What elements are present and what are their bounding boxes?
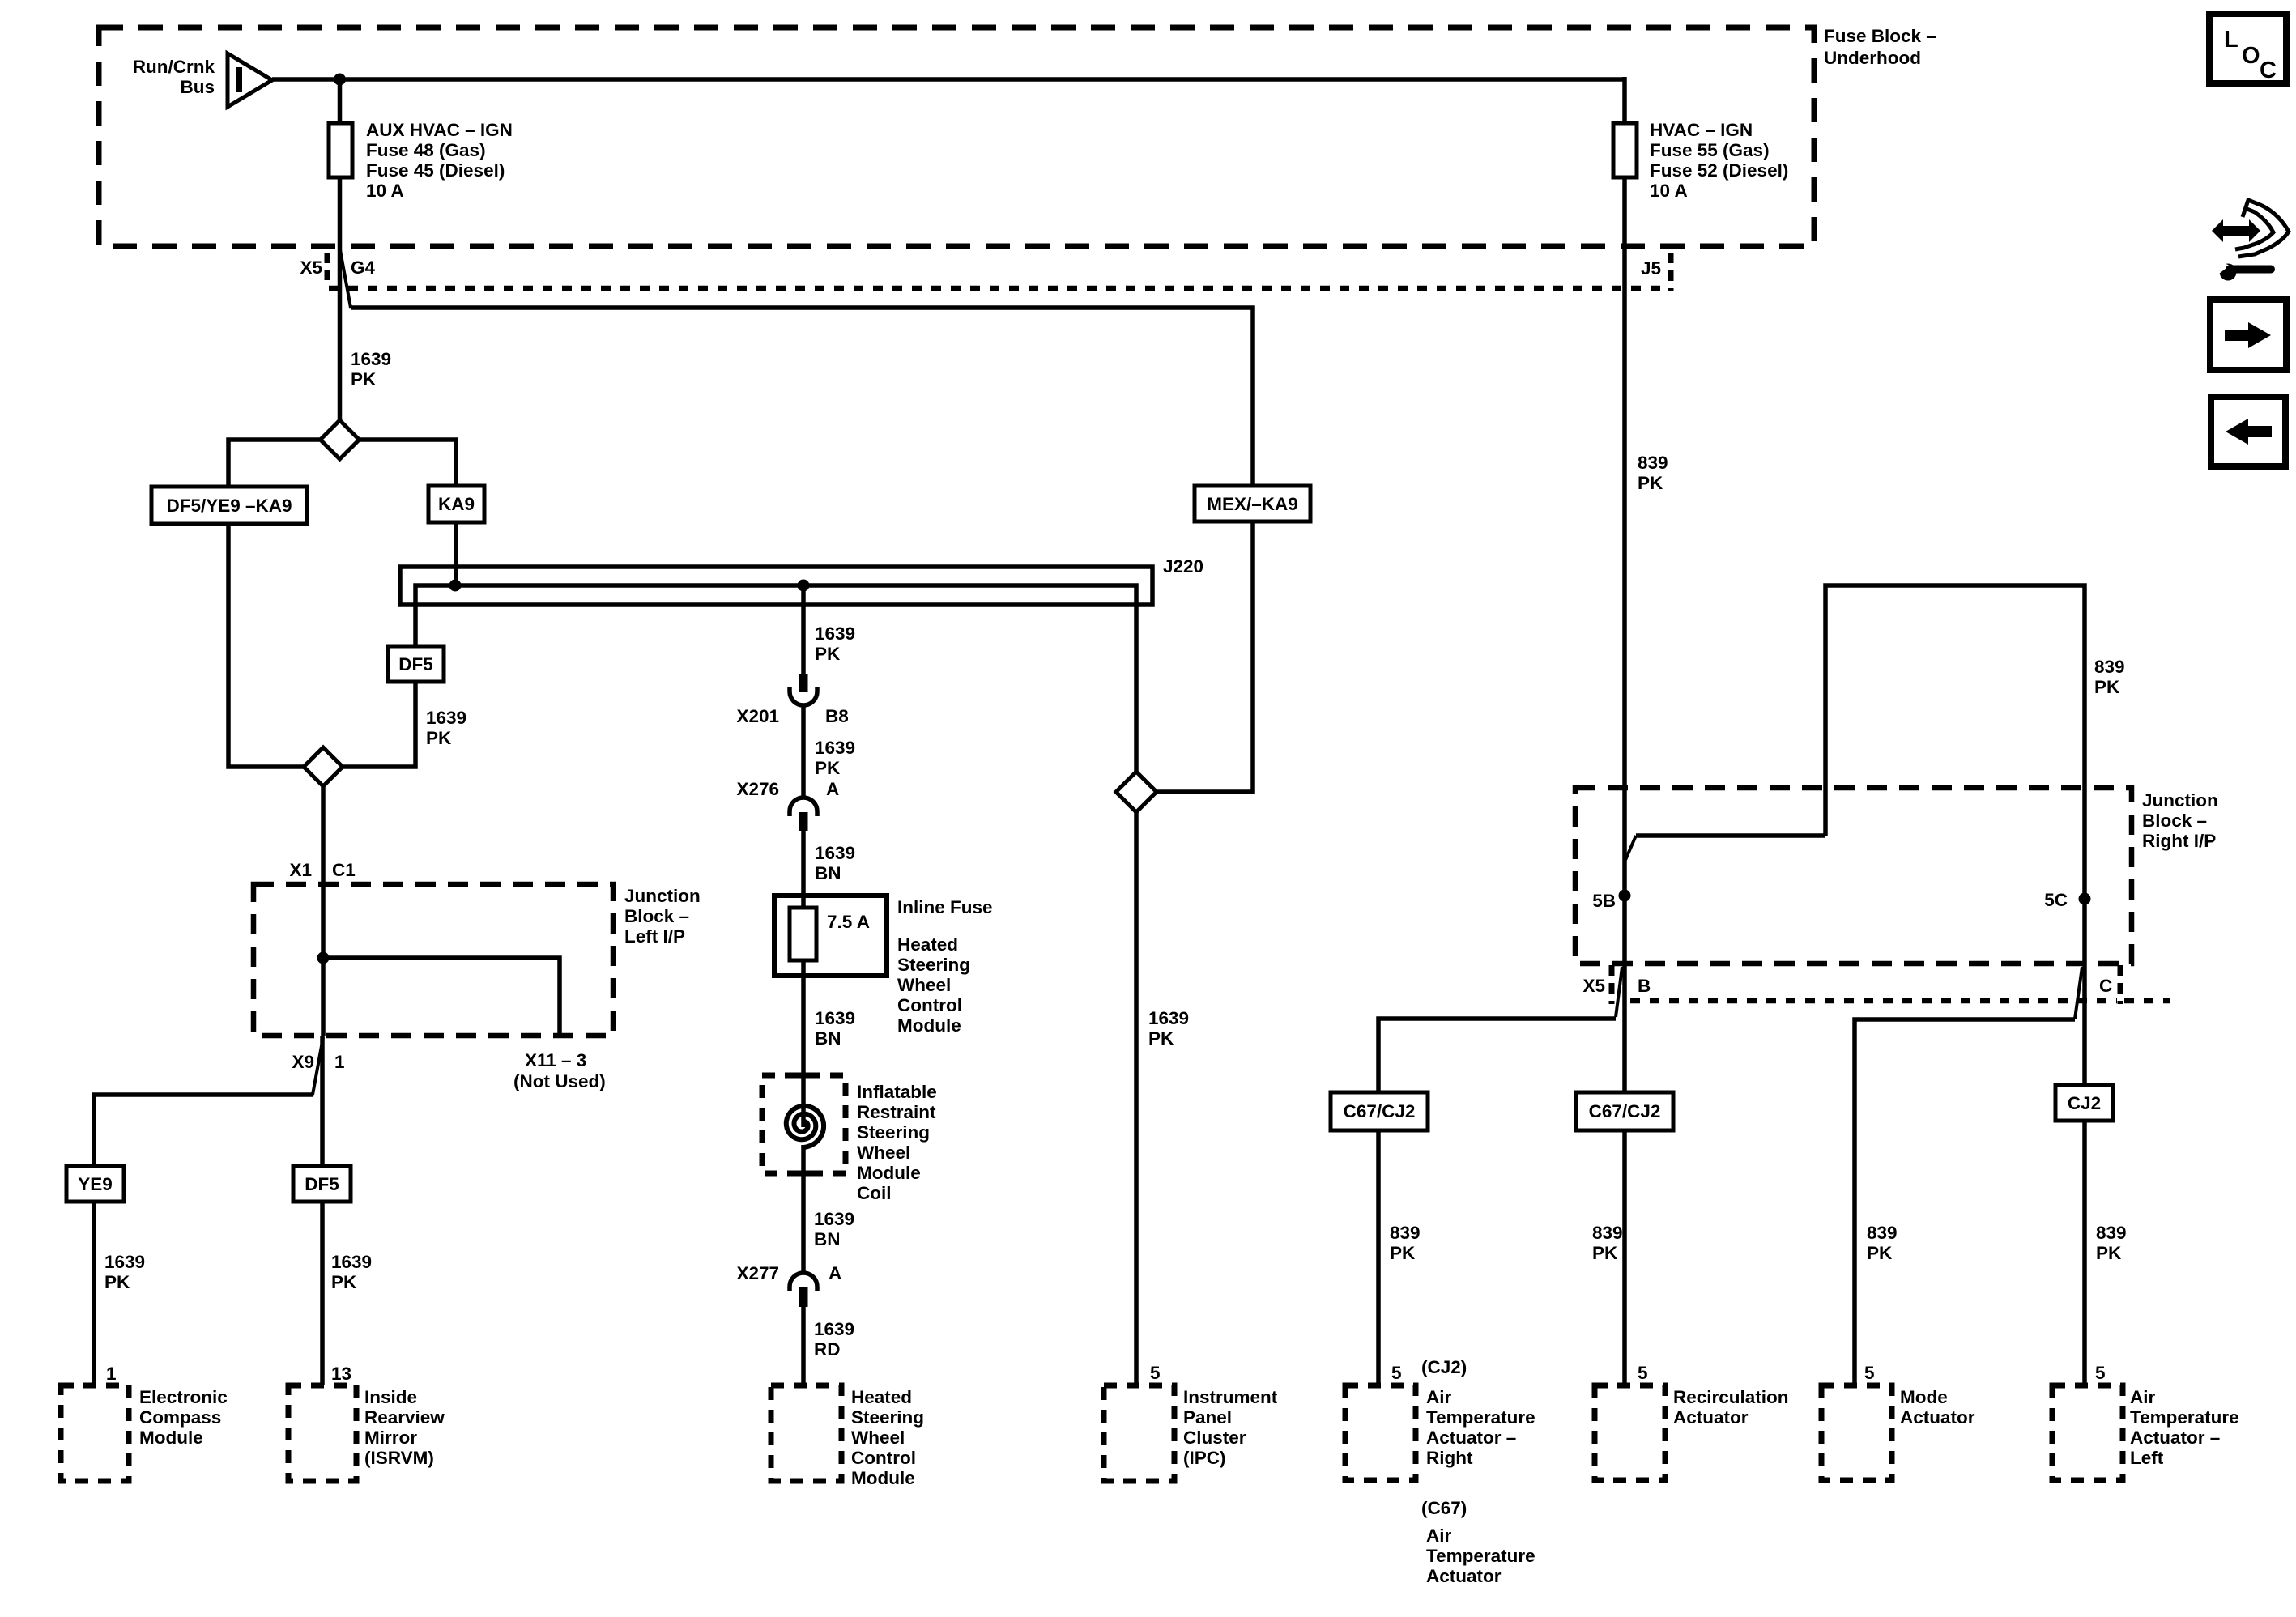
- heated steering wheel control module label: [851, 1387, 924, 1488]
- svg-text:PK: PK: [2096, 1243, 2122, 1263]
- wire label 1639 PK: [104, 1252, 145, 1292]
- wire: fuse 55 to J5: [1622, 177, 1627, 248]
- svg-text:L: L: [2224, 27, 2238, 53]
- svg-text:CJ2: CJ2: [2068, 1093, 2101, 1113]
- connector labels X277 / A: [736, 1263, 841, 1283]
- svg-text:HVAC – IGN: HVAC – IGN: [1650, 120, 1753, 140]
- svg-text:Fuse Block –: Fuse Block –: [1824, 26, 1936, 46]
- wire: Run/Crnk bus horizontal: [272, 77, 1625, 82]
- svg-text:O: O: [2242, 43, 2260, 69]
- mode actuator label: [1900, 1387, 1975, 1428]
- wire: right loop to air temp left branch: [1825, 585, 2085, 964]
- svg-text:(Not Used): (Not Used): [513, 1071, 606, 1091]
- wire: tap jog below B: [1616, 967, 1622, 1017]
- Run/Crnk Bus feed triangle: [228, 53, 272, 107]
- svg-text:Module: Module: [857, 1163, 921, 1183]
- electronic compass module box: [61, 1385, 129, 1481]
- connector labels X1 / C1: [289, 860, 355, 880]
- wire label 1639 PK: [331, 1252, 372, 1292]
- wire 1639 BN fuse to coil: [801, 960, 806, 1127]
- junction dot left I/P: [317, 952, 330, 964]
- svg-text:X277: X277: [736, 1263, 779, 1283]
- svg-text:Wheel: Wheel: [851, 1428, 905, 1448]
- connector labels X9 / 1: [292, 1052, 344, 1072]
- wire: B down to C67/CJ2 (recirculation): [1622, 964, 1627, 1092]
- svg-text:Temperature: Temperature: [2130, 1407, 2239, 1428]
- recirculation actuator label: [1673, 1387, 1789, 1428]
- svg-text:Left: Left: [2130, 1448, 2164, 1468]
- svg-text:1639: 1639: [351, 349, 391, 369]
- svg-text:1: 1: [106, 1364, 117, 1384]
- svg-text:839: 839: [1592, 1223, 1623, 1243]
- svg-text:Coil: Coil: [857, 1183, 892, 1203]
- svg-text:C1: C1: [332, 860, 356, 880]
- svg-text:Mirror: Mirror: [364, 1428, 417, 1448]
- svg-text:5C: 5C: [2044, 890, 2068, 910]
- inline fuse holder box: [774, 896, 887, 976]
- harness box MEX/-KA9: [1195, 486, 1310, 521]
- wire: horizontal to YE9: [94, 1095, 313, 1166]
- svg-text:Actuator –: Actuator –: [2130, 1428, 2220, 1448]
- fuse block - underhood label: [1824, 26, 1936, 68]
- wire inside junction block left: [321, 884, 326, 1036]
- svg-text:Control: Control: [897, 995, 962, 1015]
- wire label 839 PK: [1390, 1223, 1421, 1263]
- wire: KA9 down into J220: [454, 522, 458, 585]
- wire: horizontal to MEX/-KA9: [351, 308, 1253, 486]
- svg-text:Instrument: Instrument: [1183, 1387, 1278, 1407]
- svg-text:Restraint: Restraint: [857, 1102, 936, 1122]
- wire 839 PK to air temp left: [2082, 1121, 2087, 1385]
- connector labels X276 / A: [736, 779, 839, 799]
- svg-text:1639: 1639: [331, 1252, 372, 1272]
- fuse 55/52 HVAC-IGN 10A: [1613, 123, 1637, 177]
- wire: diamond to KA9: [360, 440, 457, 486]
- connector row dotted line (right): [1630, 998, 2117, 1004]
- junction block - right I/P dashed enclosure: [1575, 788, 2132, 964]
- junction dot J220 at X201 branch: [798, 580, 810, 592]
- svg-text:DF5/YE9 –KA9: DF5/YE9 –KA9: [166, 496, 292, 516]
- harness box DF5 (lower): [293, 1166, 351, 1202]
- svg-text:DF5: DF5: [398, 654, 433, 674]
- svg-text:Rearview: Rearview: [364, 1407, 445, 1428]
- inline fuse element 7.5 A: [790, 908, 816, 960]
- svg-text:Steering: Steering: [857, 1122, 930, 1143]
- junction block - right I/P label: [2142, 790, 2218, 851]
- wire: MEX/-KA9 down to diamond: [1157, 521, 1253, 792]
- svg-text:PK: PK: [104, 1272, 130, 1292]
- LOC reference box: [2209, 14, 2286, 83]
- instrument panel cluster box: [1104, 1385, 1174, 1481]
- svg-text:Heated: Heated: [897, 934, 958, 955]
- svg-text:PK: PK: [1867, 1243, 1893, 1263]
- svg-text:X11 – 3: X11 – 3: [525, 1050, 586, 1070]
- svg-text:Panel: Panel: [1183, 1407, 1232, 1428]
- svg-text:Air: Air: [2130, 1387, 2156, 1407]
- svg-text:5: 5: [1150, 1363, 1161, 1383]
- stub to X11-3 (not used): [323, 958, 560, 1036]
- svg-text:J220: J220: [1163, 556, 1203, 577]
- svg-text:5: 5: [1864, 1363, 1875, 1383]
- svg-text:Wheel: Wheel: [897, 975, 951, 995]
- svg-text:PK: PK: [331, 1272, 357, 1292]
- connector row X5 separator (left): [325, 253, 330, 280]
- wire label 1639 BN: [814, 1209, 854, 1249]
- svg-text:1: 1: [334, 1052, 345, 1072]
- svg-text:1639: 1639: [814, 1209, 854, 1229]
- svg-text:MEX/–KA9: MEX/–KA9: [1207, 494, 1298, 514]
- wire label 1639 RD: [814, 1319, 854, 1360]
- wire label 1639 PK / A: [815, 738, 855, 778]
- svg-text:Fuse 52 (Diesel): Fuse 52 (Diesel): [1650, 160, 1788, 181]
- wire 1639 RD to module: [801, 1307, 806, 1385]
- air temperature actuator left label: [2130, 1387, 2239, 1468]
- svg-text:1639: 1639: [815, 623, 855, 644]
- wire: J220 internal bus: [415, 585, 1136, 772]
- svg-text:(IPC): (IPC): [1183, 1448, 1226, 1468]
- svg-text:Underhood: Underhood: [1824, 48, 1921, 68]
- svg-text:10 A: 10 A: [1650, 181, 1688, 201]
- heated steering wheel control module box: [771, 1385, 841, 1481]
- svg-text:Left I/P: Left I/P: [624, 926, 685, 947]
- svg-text:Steering: Steering: [851, 1407, 924, 1428]
- wire 1639 PK to compass module: [92, 1202, 96, 1385]
- connector row dotted line (right end): [2124, 998, 2170, 1004]
- service tools icon: double arrow, outline arrow, wrench: [2212, 200, 2289, 281]
- svg-text:Junction: Junction: [624, 886, 701, 906]
- wire 1639 PK X201 to X276: [801, 705, 806, 798]
- connector row dotted line: [329, 286, 1670, 291]
- wire: horizontal to air temp right: [1378, 1019, 1616, 1092]
- svg-text:PK: PK: [2094, 677, 2120, 697]
- inflatable restraint coil dashed box: [762, 1075, 846, 1173]
- svg-text:Compass: Compass: [139, 1407, 221, 1428]
- svg-text:Heated: Heated: [851, 1387, 912, 1407]
- svg-text:839: 839: [1867, 1223, 1898, 1243]
- harness box DF5 (upper): [388, 646, 444, 682]
- connector labels X201 / B8: [736, 706, 848, 726]
- inline connector X201 pin B8: [790, 674, 817, 705]
- svg-text:X1: X1: [289, 860, 312, 880]
- svg-text:B8: B8: [825, 706, 849, 726]
- svg-text:Actuator: Actuator: [1426, 1566, 1502, 1586]
- wire label 1639 PK: [1148, 1008, 1189, 1049]
- wire 1639 BN coil to X277: [801, 1145, 806, 1273]
- svg-text:1639: 1639: [814, 1319, 854, 1339]
- svg-text:Recirculation: Recirculation: [1673, 1387, 1789, 1407]
- wire 839 PK to recirculation actuator: [1622, 1130, 1627, 1385]
- instrument panel cluster label: [1183, 1387, 1278, 1468]
- svg-text:C: C: [2260, 57, 2277, 83]
- svg-text:RD: RD: [814, 1339, 841, 1360]
- svg-text:Cluster: Cluster: [1183, 1428, 1246, 1448]
- wire: X9/1 down to DF5 (lower): [320, 1036, 325, 1166]
- svg-text:Module: Module: [139, 1428, 203, 1448]
- svg-text:B: B: [1638, 976, 1651, 996]
- air temperature actuator right label: [1426, 1387, 1536, 1468]
- wire: drop to fuse 55 (right): [1622, 77, 1627, 123]
- label (C67) air temperature actuator: [1421, 1498, 1536, 1586]
- wire: tap jog below C: [2075, 967, 2082, 1019]
- svg-text:C67/CJ2: C67/CJ2: [1344, 1101, 1416, 1121]
- svg-text:G4: G4: [351, 257, 376, 278]
- svg-text:Bus: Bus: [180, 77, 215, 97]
- wire 1639 PK to ISRVM: [320, 1202, 325, 1385]
- svg-text:839: 839: [2096, 1223, 2127, 1243]
- svg-text:Temperature: Temperature: [1426, 1407, 1536, 1428]
- wire: DF5/YE9-KA9 down to lower diamond: [228, 524, 304, 767]
- svg-text:5: 5: [1638, 1363, 1648, 1383]
- svg-text:Fuse 45 (Diesel): Fuse 45 (Diesel): [366, 160, 505, 181]
- svg-text:X9: X9: [292, 1052, 314, 1072]
- svg-text:1639: 1639: [1148, 1008, 1189, 1028]
- fuse 55 label: [1650, 120, 1788, 201]
- harness box CJ2 (air temp left): [2055, 1085, 2113, 1121]
- wire label 839 PK: [2096, 1223, 2127, 1263]
- wire 1639 PK from DF5 to lower diamond: [343, 682, 415, 767]
- fuse block - underhood dashed enclosure: [99, 28, 1814, 246]
- svg-text:Inside: Inside: [364, 1387, 417, 1407]
- svg-text:Right: Right: [1426, 1448, 1473, 1468]
- svg-text:AUX HVAC – IGN: AUX HVAC – IGN: [366, 120, 513, 140]
- svg-text:C67/CJ2: C67/CJ2: [1589, 1101, 1661, 1121]
- svg-text:PK: PK: [815, 644, 841, 664]
- svg-text:PK: PK: [1148, 1028, 1174, 1049]
- wire label 839 PK (loop): [2094, 657, 2125, 697]
- svg-text:Temperature: Temperature: [1426, 1546, 1536, 1566]
- svg-text:839: 839: [2094, 657, 2125, 677]
- wire: tap jog to 5B: [1625, 836, 1636, 860]
- harness box C67/CJ2 (air temp right): [1331, 1092, 1428, 1130]
- splice pack J220 outline: [400, 567, 1152, 605]
- connector labels X5 / B: [1582, 976, 1651, 996]
- svg-text:(C67): (C67): [1421, 1498, 1467, 1518]
- wire: G4 jog to MEX branch: [340, 248, 351, 308]
- svg-text:YE9: YE9: [78, 1174, 113, 1194]
- harness box KA9: [428, 486, 484, 522]
- svg-text:Module: Module: [851, 1468, 915, 1488]
- splice diamond (left): [321, 420, 360, 459]
- Run/Crnk Bus label: [133, 57, 215, 97]
- svg-text:PK: PK: [1390, 1243, 1416, 1263]
- svg-text:1639: 1639: [815, 843, 855, 863]
- svg-text:Actuator: Actuator: [1900, 1407, 1975, 1428]
- svg-text:KA9: KA9: [438, 494, 475, 514]
- svg-text:X276: X276: [736, 779, 779, 799]
- wire label 839 PK: [1638, 453, 1668, 493]
- svg-text:Air: Air: [1426, 1387, 1452, 1407]
- svg-text:Air: Air: [1426, 1526, 1452, 1546]
- connector row separator (C): [2118, 965, 2123, 1004]
- svg-text:5: 5: [1391, 1363, 1402, 1383]
- svg-text:Junction: Junction: [2142, 790, 2218, 811]
- wire 1639 BN to inline fuse: [801, 831, 806, 908]
- svg-text:10 A: 10 A: [366, 181, 404, 201]
- wire 839 PK from J5 down: [1622, 248, 1627, 964]
- wire: diamond down to X1 C1: [321, 786, 326, 884]
- svg-text:1639: 1639: [104, 1252, 145, 1272]
- wire label 1639 PK: [815, 623, 855, 664]
- air temperature actuator left box: [2052, 1385, 2123, 1480]
- svg-text:BN: BN: [815, 863, 841, 883]
- svg-text:5: 5: [2095, 1363, 2106, 1383]
- svg-text:PK: PK: [1638, 473, 1663, 493]
- svg-text:PK: PK: [351, 369, 377, 389]
- svg-text:Actuator –: Actuator –: [1426, 1428, 1516, 1448]
- connector labels X5 / G4: [300, 257, 375, 278]
- svg-text:C: C: [2099, 976, 2112, 996]
- inline connector X276 pin A: [790, 798, 817, 831]
- fuse 48/45 AUX HVAC-IGN 10A: [329, 123, 352, 177]
- coil label: [857, 1082, 937, 1203]
- wire 1639 PK from G4 down: [338, 248, 343, 421]
- node 5C: [2044, 890, 2090, 910]
- svg-text:Electronic: Electronic: [139, 1387, 228, 1407]
- svg-text:PK: PK: [815, 758, 841, 778]
- splice diamond (lower left): [304, 747, 343, 786]
- svg-text:Block –: Block –: [624, 906, 689, 926]
- wire label 1639 PK: [351, 349, 391, 389]
- svg-text:Inline Fuse: Inline Fuse: [897, 897, 993, 917]
- svg-text:Fuse 48 (Gas): Fuse 48 (Gas): [366, 140, 486, 160]
- svg-text:Block –: Block –: [2142, 811, 2207, 831]
- svg-text:839: 839: [1390, 1223, 1421, 1243]
- inside rearview mirror label: [364, 1387, 445, 1468]
- wire: diamond to DF5/YE9-KA9: [228, 440, 321, 487]
- wire 1639 PK to IPC: [1134, 812, 1139, 1385]
- wire label 1639 BN: [815, 1008, 855, 1049]
- svg-text:Control: Control: [851, 1448, 916, 1468]
- inline fuse labels: [897, 897, 993, 1036]
- svg-text:Run/Crnk: Run/Crnk: [133, 57, 215, 77]
- fuse 48 label: [366, 120, 513, 201]
- svg-text:DF5: DF5: [305, 1174, 339, 1194]
- svg-text:(CJ2): (CJ2): [1421, 1357, 1467, 1377]
- svg-text:839: 839: [1638, 453, 1668, 473]
- electronic compass module label: [139, 1387, 228, 1448]
- svg-text:5B: 5B: [1592, 891, 1616, 911]
- svg-text:Wheel: Wheel: [857, 1143, 910, 1163]
- svg-text:A: A: [826, 779, 839, 799]
- junction dot at fuse 48 tap: [334, 74, 346, 86]
- svg-text:(ISRVM): (ISRVM): [364, 1448, 434, 1468]
- wire: fuse 48 to X5 G4: [338, 177, 343, 248]
- wire: drop to fuse 48: [338, 79, 343, 123]
- svg-text:PK: PK: [426, 728, 452, 748]
- svg-text:X5: X5: [1582, 976, 1605, 996]
- svg-text:Steering: Steering: [897, 955, 970, 975]
- wire label 1639 BN: [815, 843, 855, 883]
- svg-text:1639: 1639: [815, 738, 855, 758]
- splice diamond (IPC): [1116, 772, 1157, 812]
- svg-text:BN: BN: [814, 1229, 841, 1249]
- junction block - left I/P dashed enclosure: [253, 884, 613, 1036]
- recirculation actuator box: [1595, 1385, 1665, 1480]
- svg-text:Mode: Mode: [1900, 1387, 1948, 1407]
- label X11 - 3 (Not Used): [513, 1050, 606, 1091]
- forward reference arrow box: [2210, 300, 2286, 370]
- svg-text:Actuator: Actuator: [1673, 1407, 1749, 1428]
- svg-text:1639: 1639: [815, 1008, 855, 1028]
- wire: horizontal to mode actuator: [1855, 1019, 2075, 1385]
- harness box YE9: [66, 1166, 124, 1202]
- inline connector X277 pin A: [790, 1273, 817, 1307]
- svg-text:X201: X201: [736, 706, 779, 726]
- svg-text:BN: BN: [815, 1028, 841, 1049]
- svg-text:1639: 1639: [426, 708, 466, 728]
- svg-text:A: A: [829, 1263, 841, 1283]
- svg-text:Inflatable: Inflatable: [857, 1082, 937, 1102]
- svg-text:Module: Module: [897, 1015, 961, 1036]
- wire 1639 PK from J220 to X201: [801, 585, 806, 674]
- wire: tap inside junction block right: [1636, 833, 1825, 838]
- svg-text:X5: X5: [300, 257, 322, 278]
- junction dot J220 at KA9: [449, 580, 462, 592]
- wire: C down to CJ2: [2082, 964, 2087, 1085]
- svg-text:7.5 A: 7.5 A: [827, 912, 870, 932]
- svg-text:PK: PK: [1592, 1243, 1618, 1263]
- harness box C67/CJ2 (recirculation): [1576, 1092, 1673, 1130]
- harness box DF5/YE9 -KA9: [151, 487, 307, 524]
- svg-text:13: 13: [331, 1364, 351, 1384]
- connector row J5 separator: [1668, 253, 1674, 291]
- svg-text:Fuse 55 (Gas): Fuse 55 (Gas): [1650, 140, 1770, 160]
- wire label 839 PK (mode): [1867, 1223, 1898, 1263]
- wire: X9 jog to compass branch: [313, 1037, 323, 1095]
- wire label 1639 PK: [426, 708, 466, 748]
- wire label 839 PK: [1592, 1223, 1623, 1263]
- mode actuator box: [1821, 1385, 1892, 1480]
- junction block - left I/P label: [624, 886, 701, 947]
- air temperature actuator right box: [1345, 1385, 1416, 1480]
- inside rearview mirror box: [288, 1385, 356, 1481]
- connector row X5 separator (B): [1609, 965, 1615, 1004]
- wire 839 PK to air temp right: [1376, 1130, 1381, 1385]
- svg-text:Right I/P: Right I/P: [2142, 831, 2216, 851]
- svg-text:J5: J5: [1641, 258, 1661, 279]
- coil spiral: [786, 1106, 824, 1147]
- node 5B: [1592, 890, 1630, 912]
- backward reference arrow box: [2211, 397, 2285, 466]
